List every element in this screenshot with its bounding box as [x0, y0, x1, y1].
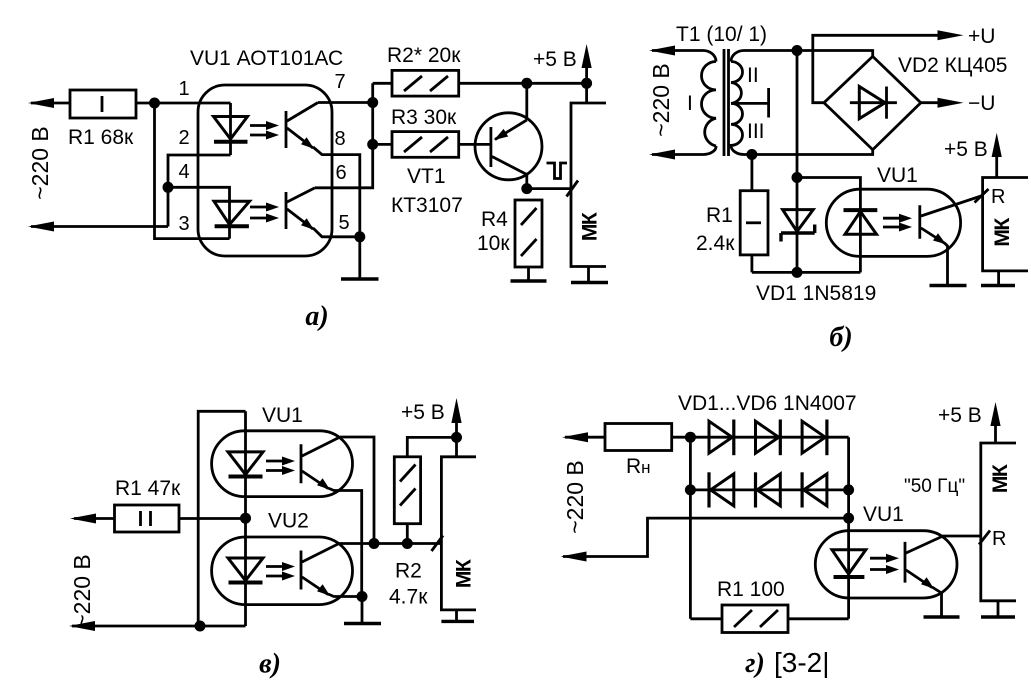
svg-text:VU1 АОТ101АС: VU1 АОТ101АС	[190, 47, 343, 70]
wire secondary top to bridge	[744, 51, 873, 57]
svg-text:4.7к: 4.7к	[389, 586, 428, 609]
wire bottom rail (circuit b)	[752, 271, 861, 274]
pulse waveform symbol	[547, 163, 568, 179]
node junction top VD1 rail	[792, 45, 803, 56]
svg-text:VD2 КЦ405: VD2 КЦ405	[898, 54, 1008, 77]
wire mains top lead (circuit g)	[565, 436, 605, 439]
optocoupler VU2 body (circuit v)	[212, 537, 353, 605]
svg-text:VT1: VT1	[407, 165, 446, 188]
resistor R4	[515, 200, 542, 267]
wire LED rail (circuit v)	[244, 411, 247, 626]
svg-text:10к: 10к	[477, 232, 510, 255]
wire pin3 jog to pin1 rail	[155, 103, 230, 239]
svg-text:VU1: VU1	[877, 164, 918, 187]
node junction VU1 collector (circuit v)	[369, 538, 380, 549]
node junction VD1 bottom	[792, 267, 803, 278]
svg-text:2.4к: 2.4к	[696, 232, 735, 255]
svg-text:+5 В: +5 В	[944, 138, 988, 161]
phototransistor VU2 (circuit v)	[301, 544, 362, 597]
+5V arrow (circuit a)	[582, 44, 592, 83]
wire pin4 to LED2 anode	[168, 187, 230, 203]
svg-text:III: III	[747, 120, 765, 143]
node junction +5V (circuit v)	[451, 432, 462, 443]
resistor R1 100 (circuit g)	[722, 605, 788, 633]
ground under R4	[511, 267, 547, 281]
node junction LED top (circuit g)	[843, 513, 854, 524]
resistor R1 47k (circuit v)	[74, 505, 246, 532]
svg-text:7: 7	[334, 71, 345, 93]
wire R2 to +5V rail	[459, 82, 587, 85]
resistor R1 2.4k (circuit b)	[740, 155, 768, 273]
mains arrow top (circuit g)	[562, 432, 588, 442]
wire secondary centre tap	[731, 88, 769, 118]
wire LED column (circuit g)	[847, 518, 850, 619]
diode VD1 1N5819 (schottky)	[781, 51, 815, 273]
arrow -U	[938, 98, 964, 108]
diode VD2	[756, 420, 781, 456]
svg-text:+5 В: +5 В	[401, 401, 445, 424]
mains arrow bottom (circuit g)	[561, 552, 587, 562]
LED of VU1 (circuit v)	[228, 452, 263, 477]
svg-text:4: 4	[178, 161, 189, 183]
svg-text:−U: −U	[968, 92, 995, 115]
svg-text:VD1...VD6 1N4007: VD1...VD6 1N4007	[678, 392, 857, 415]
light arrows (circuit b)	[883, 214, 912, 232]
svg-text:R: R	[991, 186, 1005, 208]
diode VD6	[802, 472, 827, 507]
svg-text:~220 В: ~220 В	[562, 460, 588, 534]
svg-text:+U: +U	[968, 25, 995, 48]
port slash (circuit v)	[432, 536, 444, 552]
svg-text:~220 В: ~220 В	[27, 126, 53, 200]
optocoupler U1 body AOT101AC	[198, 85, 332, 256]
resistor R2	[392, 70, 459, 96]
bridge rectifier VD2 diamond	[824, 56, 921, 149]
svg-text:R3 30к: R3 30к	[391, 106, 457, 129]
svg-text:I: I	[687, 92, 693, 115]
svg-text:МК: МК	[579, 212, 602, 241]
svg-text:R1 47к: R1 47к	[115, 477, 181, 500]
node junction R1 top	[746, 149, 757, 160]
port slash (circuit a)	[567, 181, 579, 197]
node junction R2 bottom (circuit v)	[402, 538, 413, 549]
resistor R3	[392, 132, 459, 158]
svg-text:R4: R4	[481, 208, 508, 231]
resistor Rn (circuit g)	[605, 424, 672, 451]
+5V arrow (circuit g)	[990, 402, 1000, 443]
svg-text:КТ3107: КТ3107	[391, 194, 463, 217]
mains arrow top (circuit a)	[28, 98, 54, 108]
svg-text:МК: МК	[989, 464, 1012, 493]
svg-text:а): а)	[305, 301, 328, 332]
mains arrow bottom (circuit b)	[649, 150, 675, 160]
svg-text:1: 1	[178, 78, 189, 100]
optocoupler VU1 body (circuit v)	[212, 431, 353, 497]
svg-text:б): б)	[829, 322, 852, 353]
MK box (circuit v)	[441, 437, 476, 621]
wire +U output	[813, 35, 939, 102]
svg-text:3: 3	[178, 213, 189, 235]
phototransistor VU1 (circuit v)	[301, 437, 362, 597]
node junction pin5	[354, 231, 365, 242]
node junction bottom-left diodes	[685, 484, 696, 495]
port slash (circuit b)	[975, 189, 989, 203]
light arrows LED1	[250, 121, 279, 140]
node junction pin7	[367, 97, 378, 108]
wire pin6 to pins7-8 rail	[315, 83, 373, 188]
phototransistor of VU1 (circuit b)	[920, 196, 983, 286]
node junction top-left diodes	[685, 432, 696, 443]
svg-text:~220 В: ~220 В	[69, 554, 95, 628]
phototransistor T2 of VU1	[286, 188, 315, 230]
wire R1 to node	[136, 102, 231, 105]
resistor R1 (circuit a)	[70, 90, 136, 118]
node junction pin8	[367, 139, 378, 150]
node junction +5V	[581, 78, 592, 89]
resistor R2 4.7k (circuit v)	[394, 457, 420, 544]
transformer T1 primary winding I	[702, 62, 717, 147]
node junction pin1	[149, 98, 160, 109]
optocoupler VU1 body (circuit g)	[815, 531, 957, 598]
svg-text:"50 Гц": "50 Гц"	[904, 476, 965, 497]
port slash (circuit g)	[979, 531, 990, 545]
wire R2 top to +5V (circuit v)	[407, 437, 456, 456]
MK box (circuit g)	[981, 443, 1016, 617]
wire mains bottom lead circuit a	[31, 225, 168, 228]
wire secondary bottom to bridge	[744, 150, 873, 155]
ground at pin5	[341, 237, 379, 279]
MK box (circuit b)	[981, 178, 1028, 286]
svg-text:R1: R1	[706, 204, 733, 227]
wire pin7	[318, 101, 373, 104]
svg-text:5: 5	[338, 212, 349, 234]
svg-text:[3-2|: [3-2|	[774, 647, 830, 678]
mains arrow bottom (circuit a)	[28, 222, 54, 232]
wire left bracket (circuit v)	[198, 411, 245, 626]
svg-text:в): в)	[259, 649, 281, 680]
wire -U output	[921, 101, 939, 104]
svg-text:+5 В: +5 В	[938, 404, 982, 427]
mains arrow top (circuit b)	[649, 46, 675, 56]
svg-text:МК: МК	[453, 559, 476, 588]
wire mains bottom lead circuit b	[652, 146, 716, 155]
wire T1 emitter to pin5 rail	[313, 147, 360, 237]
light arrows VU1 (circuit v)	[266, 457, 295, 476]
svg-text:VU1: VU1	[262, 404, 303, 427]
transformer secondary winding II	[731, 51, 744, 104]
svg-text:II: II	[747, 64, 759, 87]
wire top diode row	[672, 436, 849, 439]
svg-text:VU2: VU2	[268, 510, 309, 533]
diode VD4	[709, 472, 734, 507]
svg-text:~220 В: ~220 В	[648, 63, 674, 137]
svg-text:МК: МК	[991, 218, 1014, 247]
LED of VU1 (circuit b, pointing up)	[844, 210, 878, 272]
svg-text:R: R	[992, 528, 1006, 550]
wire mains top lead circuit a	[31, 102, 70, 105]
wire bottom diode row	[690, 488, 848, 491]
LED of VU1 (circuit g)	[832, 550, 866, 577]
node junction collector VT1	[521, 183, 532, 194]
MK box (circuit a)	[571, 83, 608, 282]
wire T2 emitter to pin5	[313, 228, 360, 237]
LED 2 of VU1	[214, 201, 250, 238]
ground emitter (circuit g)	[924, 615, 960, 618]
transformer secondary winding III	[731, 103, 744, 154]
svg-text:Т1 (10/ 1): Т1 (10/ 1)	[676, 23, 767, 46]
mains arrow top (circuit v)	[70, 514, 96, 524]
svg-text:6: 6	[335, 162, 346, 184]
wire VU2 collector to MK (circuit v)	[339, 542, 441, 545]
light arrows VU2 (circuit v)	[266, 562, 295, 581]
transistor VT1 KT3107 (PNP)	[475, 83, 542, 188]
optocoupler VU1 body (circuit b)	[826, 189, 960, 256]
wire VU1 collector down (circuit v)	[340, 437, 374, 544]
LED 1 of VU1	[214, 103, 248, 155]
svg-text:R1 100: R1 100	[717, 578, 785, 601]
diode VD3	[802, 420, 827, 456]
node junction VT1 emitter top	[521, 78, 532, 89]
svg-text:VD1 1N5819: VD1 1N5819	[756, 282, 876, 305]
node junction bottom bracket (circuit v)	[195, 621, 206, 632]
+5V arrow (circuit b)	[992, 133, 1002, 178]
node junction VD1 top	[792, 172, 803, 183]
svg-text:Rн: Rн	[626, 455, 651, 478]
svg-text:8: 8	[334, 128, 345, 150]
wire rail to R2	[373, 82, 392, 85]
light arrows LED2	[250, 203, 279, 223]
ground at emitter (circuit b)	[930, 284, 967, 287]
phototransistor T1 of VU1	[286, 103, 318, 149]
wire mains second lead stepped (circuit g)	[563, 518, 849, 556]
node junction pins 2-4	[163, 182, 174, 193]
light arrows (circuit g)	[870, 554, 899, 574]
node junction emitters (circuit v)	[357, 591, 368, 602]
svg-text:г): г)	[745, 648, 765, 679]
ground emitters (circuit v)	[344, 597, 381, 624]
svg-text:VU1: VU1	[863, 503, 904, 526]
wire mains top lead circuit b	[652, 51, 716, 62]
wire mains bottom (circuit v)	[72, 625, 246, 628]
LED of VU2 (circuit v)	[228, 558, 263, 583]
svg-text:R1 68к: R1 68к	[68, 126, 134, 149]
arrow +U	[938, 30, 964, 40]
diode VD1	[709, 420, 734, 456]
mains arrow bottom (circuit v)	[69, 621, 95, 631]
wire right column diodes	[847, 437, 850, 518]
bridge inner diode	[850, 87, 897, 119]
transformer core	[724, 49, 729, 156]
svg-text:R2* 20к: R2* 20к	[387, 44, 461, 67]
+5V arrow (circuit v)	[451, 398, 461, 437]
wire collector to MK	[527, 187, 571, 190]
svg-text:R2: R2	[395, 560, 422, 583]
wire bottom rail (circuit g)	[690, 617, 848, 620]
phototransistor VU1 (circuit g)	[905, 536, 981, 617]
svg-text:2: 2	[178, 127, 189, 149]
wire R3 to base	[373, 143, 491, 146]
node junction bottom-right diodes	[843, 484, 854, 495]
diode VD5	[756, 472, 781, 507]
wire pin2 jog to junction	[168, 155, 231, 227]
svg-text:+5 В: +5 В	[533, 48, 577, 71]
wire left column to bottom rail	[689, 437, 692, 619]
node junction LEDs mid (circuit v)	[240, 513, 251, 524]
wire VD1 top to LED	[797, 178, 860, 213]
